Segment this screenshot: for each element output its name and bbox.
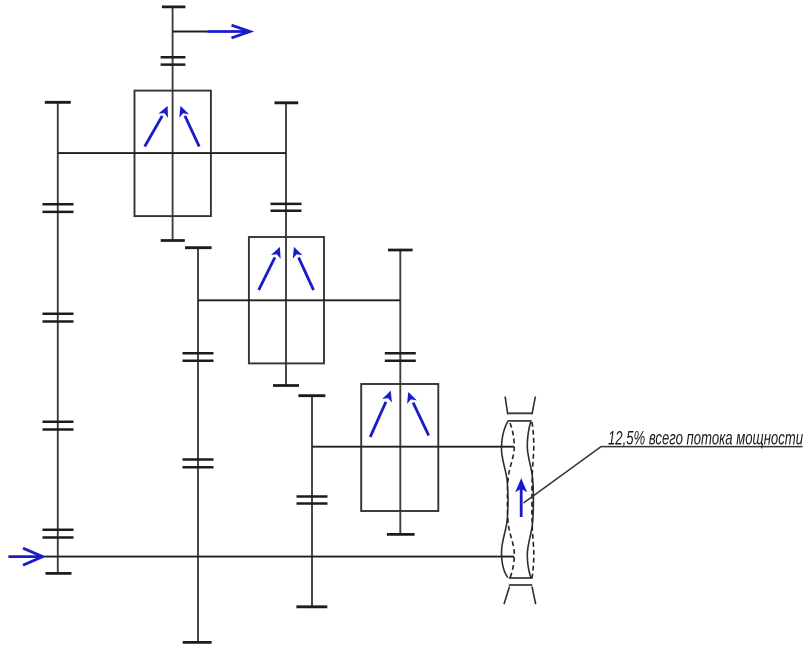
svg-text:12,5% всего потока мощности: 12,5% всего потока мощности	[608, 428, 803, 450]
